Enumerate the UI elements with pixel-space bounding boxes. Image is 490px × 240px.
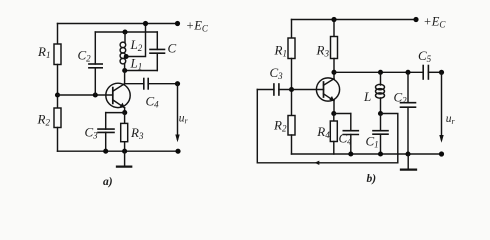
node tap junction a bbox=[124, 54, 129, 59]
svg-text:R1: R1 bbox=[274, 43, 287, 59]
node output top a bbox=[175, 81, 180, 86]
capacitor C2 (a) bbox=[89, 32, 102, 95]
resistor R3 (b) bbox=[331, 37, 338, 59]
node output top b bbox=[439, 70, 444, 75]
ground (b) bbox=[401, 154, 416, 170]
svg-text:ur: ur bbox=[446, 113, 456, 126]
wire coil top lead a bbox=[124, 32, 126, 43]
transistor VT (b) bbox=[316, 78, 339, 101]
wire R2 to rail b bbox=[291, 135, 293, 154]
node C1 rail b bbox=[378, 151, 383, 156]
node base divider a bbox=[55, 92, 60, 97]
svg-text:a): a) bbox=[103, 176, 113, 188]
resistor R1 (b) bbox=[288, 38, 295, 59]
wire R1 to R2 vertical a bbox=[57, 65, 59, 109]
resistor R2 (b) bbox=[288, 116, 295, 136]
capacitor C4 (b) bbox=[334, 114, 359, 155]
svg-text:R2: R2 bbox=[273, 118, 287, 134]
svg-text:R1: R1 bbox=[37, 44, 50, 60]
svg-text:L: L bbox=[363, 89, 371, 104]
capacitor C3 (a) bbox=[98, 113, 114, 152]
node R3 rail junction b bbox=[331, 17, 336, 22]
svg-text:R2: R2 bbox=[37, 112, 51, 128]
resistor R1 (a) bbox=[54, 44, 61, 65]
svg-text:C5: C5 bbox=[418, 48, 432, 64]
node +Ec terminal b bbox=[413, 17, 418, 22]
wire bottom rail a bbox=[58, 150, 179, 152]
svg-text:+EC: +EC bbox=[423, 14, 446, 29]
node tap-rail junction a bbox=[143, 21, 148, 26]
inductor L (b) bbox=[376, 72, 385, 113]
node C2 top b bbox=[405, 70, 410, 75]
capacitor C1 (b) bbox=[373, 114, 388, 155]
svg-text:C2: C2 bbox=[78, 48, 92, 64]
node emitter a bbox=[122, 110, 127, 115]
resistor R2 (a) bbox=[54, 108, 61, 128]
ground (a) bbox=[117, 151, 131, 166]
node emitter b bbox=[331, 111, 336, 116]
wire R1 to R2 b bbox=[291, 59, 293, 116]
svg-text:R4: R4 bbox=[316, 124, 330, 140]
svg-text:L1: L1 bbox=[130, 56, 143, 72]
wire emitter to C3 a bbox=[106, 112, 125, 114]
wire tank top a bbox=[95, 31, 157, 33]
resistor R3 (a) bbox=[121, 113, 128, 152]
svg-text:C: C bbox=[168, 41, 177, 56]
inductor L2 (a) bbox=[120, 42, 126, 53]
wire top rail a bbox=[58, 23, 178, 25]
node L bottom b bbox=[378, 111, 383, 116]
wire feedback loop b bbox=[257, 90, 398, 163]
wire top rail b bbox=[292, 19, 417, 21]
feedback arrowhead b bbox=[315, 161, 320, 165]
node L top b bbox=[378, 70, 383, 75]
output arrow ur (a) bbox=[175, 84, 179, 143]
svg-text:C4: C4 bbox=[146, 94, 160, 110]
node C2-base junction a bbox=[93, 92, 98, 97]
wire rail to R3 b bbox=[333, 20, 335, 37]
node C3 rail a bbox=[103, 149, 108, 154]
svg-text:C3: C3 bbox=[85, 125, 99, 141]
wire rail to R1 b bbox=[291, 20, 293, 39]
svg-text:b): b) bbox=[367, 173, 377, 185]
node coil bottom / collector a bbox=[122, 68, 127, 73]
node collector b bbox=[331, 70, 336, 75]
capacitor C (a) bbox=[150, 32, 165, 71]
wire emitter vertical a bbox=[124, 108, 126, 113]
node base divider b bbox=[289, 87, 294, 92]
svg-text:R3: R3 bbox=[130, 125, 144, 141]
node C2 rail / ground b bbox=[405, 151, 410, 156]
wire emitter vertical b bbox=[333, 101, 335, 114]
node coil top a bbox=[122, 29, 127, 34]
wire collector vertical a bbox=[124, 64, 126, 84]
capacitor C3 (b) bbox=[257, 84, 323, 95]
svg-text:+EC: +EC bbox=[186, 18, 209, 33]
wire R2 to bottom rail a bbox=[57, 128, 59, 152]
capacitor C4 (a) bbox=[125, 79, 178, 89]
node rail end a bbox=[175, 149, 180, 154]
svg-text:C3: C3 bbox=[270, 65, 284, 81]
svg-text:C4: C4 bbox=[339, 131, 353, 147]
inductor L1 (a) bbox=[120, 53, 126, 64]
wire left vertical top a bbox=[57, 24, 59, 45]
wire collector node to C5 b bbox=[334, 71, 423, 73]
resistor R4 (b) bbox=[330, 114, 337, 155]
capacitor C2 (b) bbox=[401, 72, 416, 154]
capacitor C5 (b) bbox=[423, 66, 441, 80]
wire base a bbox=[58, 94, 113, 96]
wire R3 to collector b bbox=[333, 59, 335, 79]
svg-text:R3: R3 bbox=[316, 43, 330, 59]
svg-text:C1: C1 bbox=[366, 134, 379, 150]
svg-text:L2: L2 bbox=[130, 37, 143, 53]
node +Ec terminal a bbox=[175, 21, 180, 26]
node rail end b bbox=[439, 151, 444, 156]
wire bottom rail b bbox=[292, 153, 443, 155]
node R3 rail a bbox=[122, 149, 127, 154]
output arrow ur (b) bbox=[439, 72, 443, 143]
transistor VT (a) bbox=[106, 83, 130, 108]
node C4 rail b bbox=[348, 151, 353, 156]
wire tap to +Ec rail a bbox=[126, 24, 145, 57]
svg-text:C2: C2 bbox=[394, 90, 408, 106]
wire tank bottom a bbox=[125, 70, 158, 72]
svg-text:ur: ur bbox=[179, 113, 189, 126]
